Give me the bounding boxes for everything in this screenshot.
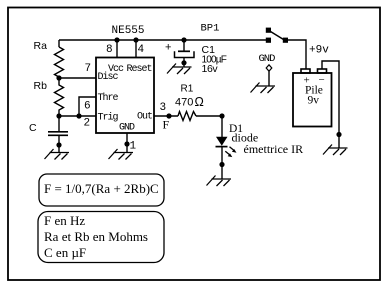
node junction below diode <box>219 162 224 167</box>
svg-text:C en µF: C en µF <box>44 245 86 260</box>
wire battery minus <box>322 61 339 148</box>
node junction below C <box>56 142 61 147</box>
diode D1 <box>216 137 228 146</box>
emission arrow 2 <box>225 151 229 155</box>
node junction below battery <box>336 132 341 137</box>
node junction pin4 rail <box>133 37 138 42</box>
svg-text:3: 3 <box>160 102 167 114</box>
svg-text:Thre: Thre <box>98 92 119 104</box>
ground under battery <box>323 145 348 156</box>
svg-text:Ra et Rb en Mohms: Ra et Rb en Mohms <box>44 229 148 244</box>
svg-text:Trig: Trig <box>98 112 119 124</box>
ground under C1 <box>167 64 192 75</box>
svg-text:Out: Out <box>137 112 152 123</box>
svg-text:GND: GND <box>259 53 276 65</box>
capacitor C <box>48 132 68 136</box>
wire C top lead <box>58 116 60 132</box>
node junction C1 rail <box>181 37 186 42</box>
emission arrow 1 <box>230 147 234 151</box>
wire top rail <box>59 39 266 41</box>
capacitor C1 wire top <box>183 40 185 51</box>
resistor Rb <box>55 78 64 116</box>
wire pin 2 Trig <box>59 115 96 117</box>
svg-text:Rb: Rb <box>34 80 48 92</box>
svg-text:R1: R1 <box>181 84 194 95</box>
op-amp/timer U1 NE555 box <box>96 58 154 134</box>
node junction Ra-Rb-pin7 <box>56 75 61 80</box>
node F <box>166 113 171 118</box>
svg-text:Ω: Ω <box>195 95 204 109</box>
wire diode anode <box>221 116 223 137</box>
battery terminal plus tab <box>301 69 310 73</box>
wire pin 6 Thre <box>79 97 96 116</box>
resistor R1 <box>178 112 196 121</box>
node junction below C1 <box>181 60 186 65</box>
svg-text:NE555: NE555 <box>112 25 145 37</box>
wire C1 bottom <box>183 58 185 68</box>
node junction Thre branch <box>76 113 81 118</box>
svg-text:F: F <box>163 118 170 132</box>
ground GND symbol <box>251 83 276 94</box>
node junction pin8 rail <box>114 37 119 42</box>
switch BP1 contact right <box>283 38 288 43</box>
switch BP1 lever <box>271 32 284 40</box>
svg-text:2: 2 <box>84 117 91 129</box>
formula box F = 1/0,7(Ra + 2Rb)C <box>39 174 164 206</box>
node junction Rb-C-pin2 <box>56 113 61 118</box>
svg-text:GND: GND <box>119 123 135 134</box>
units box <box>38 212 164 263</box>
wire diode cathode <box>221 147 223 179</box>
svg-text:F = 1/0,7(Ra + 2Rb)C: F = 1/0,7(Ra + 2Rb)C <box>44 181 159 196</box>
wire C bottom lead <box>58 135 60 152</box>
ground under pin 1 <box>109 149 134 160</box>
svg-text:8: 8 <box>106 44 113 56</box>
svg-text:Reset: Reset <box>127 64 152 75</box>
switch BP1 contact upper <box>266 28 271 33</box>
wire pin 1 <box>126 133 128 153</box>
wire pin 7 Disc <box>59 77 96 79</box>
wire pin 4 <box>135 40 137 58</box>
capacitor C1 <box>178 50 190 52</box>
wire Ra top lead <box>58 40 60 47</box>
svg-text:4: 4 <box>138 44 145 56</box>
svg-text:16v: 16v <box>202 63 219 75</box>
svg-text:+9v: +9v <box>309 44 329 56</box>
node junction R1-D1 <box>219 113 224 118</box>
svg-text:9v: 9v <box>308 95 320 107</box>
wire R1 to diode <box>196 115 222 117</box>
GND terminal diamond <box>266 65 272 71</box>
wire switch to battery <box>288 40 306 69</box>
ground under C <box>45 149 70 160</box>
svg-text:C: C <box>29 122 37 134</box>
svg-text:émettrice IR: émettrice IR <box>244 142 304 156</box>
switch BP1 contact left <box>266 38 271 43</box>
svg-text:Ra: Ra <box>34 40 48 52</box>
svg-text:1: 1 <box>130 140 137 152</box>
wire pin 3 Out <box>154 115 178 117</box>
battery terminal minus tab <box>318 69 327 73</box>
wire pin 8 <box>116 40 118 58</box>
svg-text:6: 6 <box>84 100 91 112</box>
svg-text:Disc: Disc <box>98 71 119 83</box>
svg-text:470: 470 <box>175 97 193 109</box>
wire GND stem <box>268 71 270 86</box>
svg-text:7: 7 <box>85 63 92 75</box>
svg-text:F en Hz: F en Hz <box>44 213 85 228</box>
battery Pile 9v box <box>293 73 332 127</box>
ground under diode <box>207 176 232 187</box>
node junction pin1 <box>124 141 129 146</box>
svg-text:BP1: BP1 <box>201 23 220 35</box>
resistor Ra <box>55 47 64 77</box>
svg-text:+: + <box>165 42 171 54</box>
